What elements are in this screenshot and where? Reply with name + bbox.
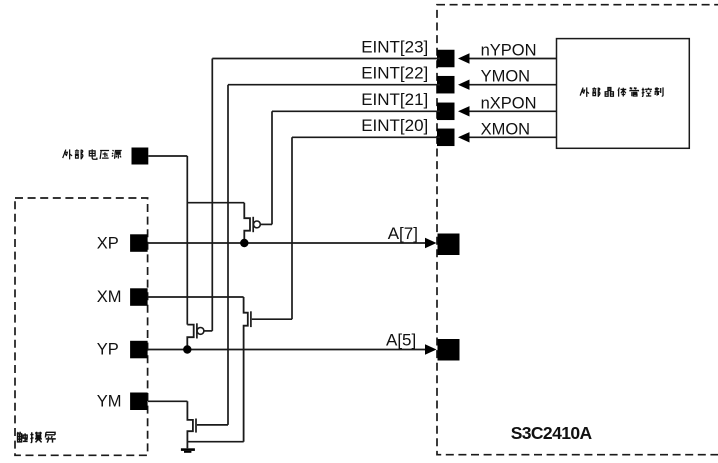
svg-text:XM: XM [97,288,122,306]
svg-text:S3C2410A: S3C2410A [511,423,593,443]
pin 外部电压源 (voltage source pad) [132,148,149,165]
svg-text:YMON: YMON [481,68,530,86]
svg-text:EINT[21]: EINT[21] [361,90,428,109]
wire EINT[20] horizontal [292,136,440,138]
transistor Q4 (NMOS, YM switch) channel and leads [187,401,228,448]
label 触摸屏 (touch screen) [17,432,55,443]
wire YMON [469,84,557,86]
transistor Q2 (PMOS, YP switch) channel and leads [187,323,212,349]
svg-text:EINT[22]: EINT[22] [361,64,428,83]
svg-text:A[7]: A[7] [388,224,418,243]
wire YM [148,400,187,402]
wire nYPON (control box to EINT[23] pin) [469,58,557,60]
svg-text:YP: YP [97,341,119,359]
wire EINT[22] vertical (to Q4 gate) [227,85,229,425]
wire EINT[20] vertical (to Q3 gate) [291,137,293,319]
svg-text:nYPON: nYPON [481,42,537,60]
wire ground rail (Q3 source to Q4 source) [187,441,243,443]
wire EINT[22] horizontal [228,84,440,86]
wire EINT[21] horizontal [272,110,440,112]
label 外部电压源 (external voltage source) [63,149,122,159]
wire EINT[21] vertical (to Q1 gate) [271,111,273,224]
pin EINT[22] pad [437,76,455,94]
wire EINT[23] vertical (to Q2 gate) [211,59,213,331]
wire XM [148,296,244,298]
pin A[5] pad [438,339,460,361]
pin YM pad [130,393,148,411]
pin YP pad [130,341,148,359]
wire voltage source to vertical rail [148,155,187,157]
arrowhead A[5] [425,344,437,354]
wire voltage rail vertical (to Q2 source) [186,156,188,325]
wire EINT[23] horizontal [212,58,440,60]
pin EINT[23] pad [437,50,455,68]
arrowhead XMON [458,132,470,142]
external transistor control box U1 [557,39,690,149]
pin A[7] pad [438,234,460,256]
svg-text:A[5]: A[5] [386,330,416,349]
touch screen panel boundary (dashed box) [15,198,148,455]
pin EINT[20] pad [437,129,455,147]
transistor Q1 (PMOS, XP switch) channel and leads [244,203,272,243]
ground symbol [181,448,195,453]
svg-text:YM: YM [97,392,122,410]
wire XMON [469,136,557,138]
node junction on XP wire [240,239,248,247]
svg-text:XMON: XMON [481,120,530,138]
arrowhead nYPON [458,53,470,63]
svg-text:EINT[20]: EINT[20] [361,116,428,135]
pin XP pad [130,234,148,252]
S3C2410A chip boundary (dashed box) [437,5,718,455]
wire nXPON [469,110,557,112]
arrowhead nXPON [458,106,470,116]
node junction on YP wire [183,345,191,353]
pin EINT[21] pad [437,103,455,121]
arrowhead A[7] [425,238,437,248]
label 外部晶体管控制 (external transistor control) [580,87,663,97]
arrowhead YMON [458,80,470,90]
transistor Q3 (NMOS, XM switch) channel and leads [244,297,292,442]
svg-text:EINT[23]: EINT[23] [361,37,428,56]
wire XP (to A[7] pin) [148,242,426,244]
svg-text:nXPON: nXPON [481,94,537,112]
pin XM pad [130,288,148,306]
wire source rail to Q1 [187,202,244,204]
svg-text:XP: XP [97,235,119,253]
wire YP (to A[5] pin) [148,349,426,351]
